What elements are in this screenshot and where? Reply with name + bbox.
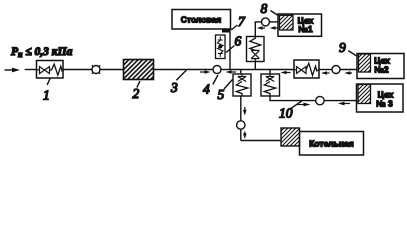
device 5: valve+compensator vertical box (233, 74, 251, 96)
regulator 6: narrow box with squiggle (216, 35, 226, 59)
svg-text:8: 8 (261, 1, 268, 16)
workshop 2 box Цех №2 (357, 54, 404, 79)
wire to workshop 2 (340, 69, 357, 71)
svg-text:Столовая: Столовая (181, 14, 221, 24)
pipe to workshop 1 (270, 21, 279, 23)
boiler inlet hatch (281, 128, 300, 146)
leader + label 6 (226, 34, 242, 53)
leader + label 7 (231, 14, 246, 30)
svg-text:10: 10 (279, 106, 293, 121)
svg-text:№1: №1 (298, 24, 312, 34)
svg-text:5: 5 (218, 87, 225, 102)
riser above device 8 (255, 22, 261, 37)
leader + label 10 (279, 101, 302, 121)
device R: valve+compensator box on right main (294, 60, 319, 78)
device on branch 8: valve+compensator vertical box (247, 37, 265, 62)
down flow arrow (243, 107, 247, 116)
leader + label 8 (261, 1, 279, 16)
device 1: shutoff valve with compensator (box, bowtie + zigzag) (37, 61, 64, 79)
svg-text:4: 4 (203, 82, 210, 97)
flow arrow left before valve 9 (321, 71, 330, 75)
flow arrow left before workshop 2 (344, 71, 352, 75)
svg-text:6: 6 (235, 34, 242, 49)
workshop 1 box Цех №1 (278, 14, 322, 36)
wire inlet to device 1 (25, 69, 37, 71)
svg-text:2: 2 (133, 86, 140, 101)
leader + label 3 (170, 70, 187, 95)
svg-text:9: 9 (339, 40, 346, 55)
flow arrow left before workshop 3 (338, 102, 350, 106)
pipe from device 10 to workshop 3 (270, 96, 316, 101)
wire 3: main line to junction area (154, 69, 214, 71)
leader + label 5 (218, 80, 233, 103)
main line junction J1 to J4 (230, 69, 294, 71)
device on branch 10: valve+compensator vertical box (261, 74, 280, 96)
drop pipe below device 5 (240, 96, 242, 121)
boiler house box Котельная (300, 132, 364, 156)
drop branch 10 (269, 70, 271, 75)
svg-text:1: 1 (43, 88, 50, 103)
svg-text:3: 3 (170, 80, 178, 95)
wire to valve 9 (319, 69, 332, 71)
orifice plate 7 (thick bar) (222, 30, 231, 33)
flow arrow left after junction 10 (281, 71, 291, 75)
valve on branch 10 (316, 96, 324, 104)
svg-text:№2: №2 (374, 65, 388, 75)
valve on boiler drop (237, 121, 245, 129)
leader + label 2 (133, 81, 140, 101)
workshop 3 box Цех №3 (357, 84, 404, 112)
valve circle before workshop 2 (332, 66, 340, 74)
leader + label 1 (43, 78, 50, 102)
leader + label 9 (339, 40, 357, 56)
flow arrow right on branch 10 (298, 103, 311, 107)
down flow arrow 2 (243, 132, 247, 140)
wire device1 to valve C1 (63, 69, 92, 71)
inlet flow arrow (5, 68, 21, 73)
riser to canteen (229, 31, 231, 70)
wire C1 to device 2 (100, 69, 124, 71)
valve 8 circle (262, 18, 270, 26)
wire C4 to junction J1 (221, 69, 230, 71)
drop pipe to device 5 (240, 70, 242, 75)
svg-text:7: 7 (238, 14, 246, 29)
svg-text:№ 3: № 3 (376, 99, 393, 109)
leader + label 4 (203, 75, 218, 97)
flow arrow toward valve 4 (200, 70, 211, 74)
pipe below valve (240, 129, 242, 140)
riser branch 8 (254, 62, 256, 70)
svg-text:Pн ≤ 0,3 кПа: Pн ≤ 0,3 кПа (11, 46, 73, 59)
pipe to workshop 3 (324, 100, 356, 102)
canteen box Столовая (172, 10, 231, 30)
flow arrows at valve 8 (257, 26, 278, 29)
device 2: hatched box (gas control unit) (124, 60, 154, 80)
svg-text:Котельная: Котельная (309, 138, 354, 148)
flow arrow left toward valve 4 (226, 70, 237, 74)
pipe to boiler house (241, 140, 281, 142)
valve 4: circle on main line (213, 66, 221, 74)
valve C1: circle with diagonal ticks (92, 65, 101, 74)
